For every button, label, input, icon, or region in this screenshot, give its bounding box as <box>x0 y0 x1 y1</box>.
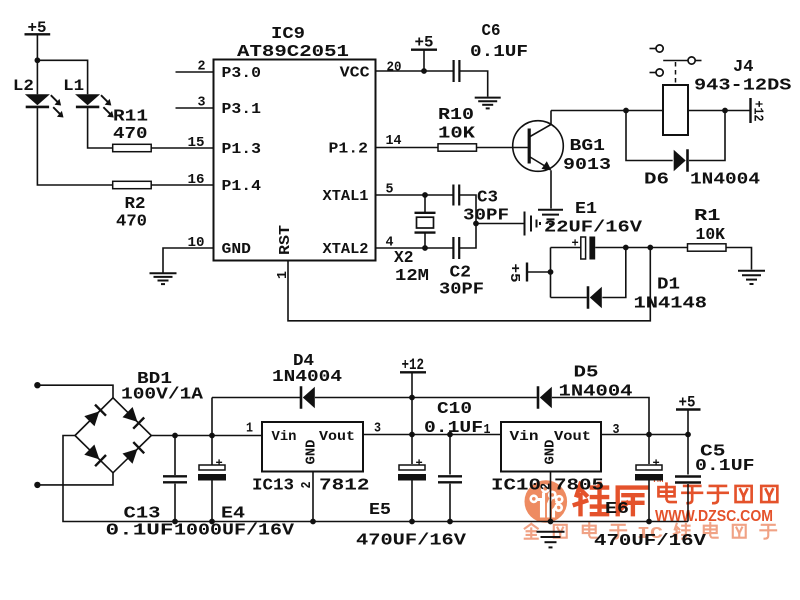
transistor BG1 <box>513 121 564 172</box>
wire rail to D4 <box>212 397 300 399</box>
wire AC top input <box>37 385 113 398</box>
svg-text:P3.0: P3.0 <box>222 66 262 82</box>
ground BG1 emitter <box>538 209 563 211</box>
op IC9 AT89C2051 box <box>214 60 376 261</box>
wire collector to relay coil <box>551 110 663 112</box>
svg-text:100V/1A: 100V/1A <box>121 386 204 405</box>
svg-text:1N4148: 1N4148 <box>634 295 708 314</box>
capacitor C10 <box>438 475 462 477</box>
watermark logo circle <box>525 480 568 523</box>
svg-text:470UF/16V: 470UF/16V <box>356 532 467 551</box>
LED L2 <box>25 94 50 105</box>
node rail C10 <box>447 519 453 525</box>
wire E1 left branch <box>550 248 552 298</box>
svg-text:1: 1 <box>276 271 291 279</box>
node rail C13 <box>172 519 178 525</box>
wire +5 to LED junction <box>36 34 38 60</box>
node RST junction <box>647 245 653 251</box>
node rail IC10 GND <box>548 519 554 525</box>
wire AC bottom input <box>37 473 113 485</box>
wire relay to D6 anode <box>626 111 673 161</box>
svg-text:C3: C3 <box>477 189 498 208</box>
svg-text:IC9: IC9 <box>271 25 305 44</box>
wire +5 stub to VCC <box>423 50 425 71</box>
node C5 junction <box>685 432 691 438</box>
svg-text:IC13: IC13 <box>252 477 294 496</box>
diode D1 <box>587 286 590 309</box>
node E6 junction <box>646 432 652 438</box>
svg-text:GND: GND <box>222 242 252 258</box>
wire R11 to pin 15 <box>151 147 213 149</box>
node E1 +5 junction <box>548 269 554 275</box>
wire RST pin 1 to D1 node <box>288 248 650 321</box>
wire D6 cathode to +12 node <box>689 111 725 161</box>
svg-text:R10: R10 <box>438 106 474 125</box>
svg-text:XTAL2: XTAL2 <box>323 242 369 258</box>
svg-text:AT89C2051: AT89C2051 <box>237 43 349 62</box>
svg-text:10K: 10K <box>696 226 726 245</box>
wire pin 10 GND <box>163 248 214 273</box>
relay J4 switch contacts <box>650 48 657 50</box>
svg-text:3: 3 <box>198 96 206 111</box>
wire C10 to rail <box>449 484 451 522</box>
svg-text:P1.2: P1.2 <box>329 141 369 157</box>
node crystal caps common <box>473 221 479 227</box>
wire IC10 Vout to +5 <box>601 434 688 436</box>
wire E4 to rail <box>211 481 213 522</box>
svg-text:14: 14 <box>386 134 402 149</box>
svg-text:4: 4 <box>386 236 394 251</box>
crystal X2 <box>415 212 436 214</box>
svg-text:1: 1 <box>484 423 491 438</box>
power +12 at rail <box>400 371 426 373</box>
wire +5 to E1 node <box>527 271 551 273</box>
svg-text:P3.1: P3.1 <box>222 102 262 118</box>
svg-text:2: 2 <box>540 483 555 490</box>
svg-text:470: 470 <box>113 125 148 144</box>
svg-text:15: 15 <box>188 136 205 151</box>
power +5 at output <box>676 408 701 410</box>
svg-text:C10: C10 <box>437 400 472 419</box>
svg-text:RST: RST <box>278 225 294 255</box>
svg-text:7812: 7812 <box>319 477 370 496</box>
wire +5 stub at C5 <box>687 410 689 435</box>
svg-text:L2: L2 <box>13 77 34 95</box>
wire bridge plus output <box>151 435 262 437</box>
wire +12 stub <box>411 372 413 397</box>
wire R2 to pin 16 <box>151 184 213 186</box>
wire IC13 GND to rail <box>312 472 314 522</box>
svg-text:D6: D6 <box>644 171 669 190</box>
svg-text:0.1UF: 0.1UF <box>470 43 528 62</box>
power +12 rotated at relay <box>749 98 751 123</box>
svg-text:+12: +12 <box>402 356 425 374</box>
node C10 junction <box>447 432 453 438</box>
diode D5 <box>537 386 540 409</box>
diode D6 <box>674 150 686 172</box>
node relay left junction <box>623 108 629 114</box>
LED L1 <box>75 94 100 105</box>
wire ground rail <box>175 521 688 523</box>
resistor R11 <box>113 144 152 151</box>
wire XTAL1 to crystal <box>424 195 426 213</box>
svg-text:E1: E1 <box>575 200 597 219</box>
diode D4 <box>300 386 303 409</box>
capacitor C6 <box>453 60 455 82</box>
wire C5 to rail <box>687 484 689 522</box>
svg-text:Vin: Vin <box>272 430 297 445</box>
regulator IC10 7805 box <box>501 422 601 472</box>
svg-text:30PF: 30PF <box>463 207 509 226</box>
wire R1 to ground <box>726 248 752 270</box>
node rail IC13 GND <box>310 519 316 525</box>
svg-text:R1: R1 <box>694 207 721 226</box>
node rail E5 <box>409 519 415 525</box>
node E4 top junction <box>209 433 215 439</box>
ground R1 <box>738 270 765 272</box>
svg-text:GND: GND <box>544 440 559 465</box>
svg-text:XTAL1: XTAL1 <box>323 189 369 205</box>
wire bridge diamond <box>75 398 151 473</box>
ground C6 <box>475 97 501 99</box>
svg-text:Vin: Vin <box>510 430 539 445</box>
node +12 junction <box>409 395 415 401</box>
svg-text:30PF: 30PF <box>439 281 484 300</box>
node rail E6 <box>646 519 652 525</box>
watermark text 电子市场网 <box>658 484 675 502</box>
resistor R2 <box>113 181 152 188</box>
wire D1 branch down <box>551 297 587 299</box>
wire pin 3 stub P3.1 <box>176 107 214 109</box>
relay J4 coil <box>663 85 688 135</box>
svg-text:E6: E6 <box>605 500 629 519</box>
svg-text:3: 3 <box>613 423 620 438</box>
svg-text:+5: +5 <box>506 264 521 283</box>
power +5 at VCC <box>411 49 437 51</box>
watermark text 维库 <box>575 484 607 514</box>
wire IC10 GND to rail <box>550 472 552 522</box>
node LED supply junction <box>35 57 41 63</box>
svg-text:VCC: VCC <box>340 65 370 81</box>
wire C6 to ground <box>460 71 488 97</box>
capacitor C5 <box>675 475 701 477</box>
capacitor C2 <box>452 237 454 259</box>
svg-text:470: 470 <box>116 213 147 232</box>
svg-text:BG1: BG1 <box>570 137 606 156</box>
node XTAL1 junction <box>422 192 428 198</box>
wire C13 branch <box>174 436 176 476</box>
svg-text:+5: +5 <box>679 394 696 412</box>
svg-text:10K: 10K <box>438 125 476 144</box>
svg-text:+5: +5 <box>415 34 434 52</box>
svg-text:+: + <box>572 237 579 251</box>
svg-text:GND: GND <box>305 440 320 465</box>
svg-text:C6: C6 <box>482 22 501 41</box>
node VCC junction <box>421 68 427 74</box>
svg-text:7805: 7805 <box>554 477 604 496</box>
svg-text:20: 20 <box>387 61 402 76</box>
terminal AC bottom <box>34 482 40 488</box>
resistor R10 <box>438 144 477 151</box>
resistor R1 <box>688 244 727 251</box>
svg-text:D1: D1 <box>657 276 680 295</box>
wire pin 2 stub P3.0 <box>176 71 214 73</box>
wire R10 to BG1 base <box>477 147 528 149</box>
capacitor C3 <box>452 185 454 206</box>
svg-text:1N4004: 1N4004 <box>272 368 342 387</box>
wire pin 14 P1.2 to R10 <box>376 147 439 149</box>
svg-text:1N4004: 1N4004 <box>559 383 633 402</box>
svg-text:E5: E5 <box>369 501 391 520</box>
svg-text:9013: 9013 <box>563 156 611 175</box>
wire E5 branch <box>411 435 413 465</box>
node +12 output junction <box>409 432 415 438</box>
svg-text:0.1UF: 0.1UF <box>424 419 483 438</box>
svg-text:J4: J4 <box>733 58 754 77</box>
svg-text:943-12DS: 943-12DS <box>694 77 792 96</box>
regulator IC13 7812 box <box>262 422 363 472</box>
svg-text:IC10: IC10 <box>491 477 541 496</box>
power +5 rotated at E1 <box>526 263 528 282</box>
node relay right junction <box>722 108 728 114</box>
ground IC9 pin10 <box>150 272 177 274</box>
wire crystal to XTAL2 <box>424 233 426 248</box>
svg-text:470UF/16V: 470UF/16V <box>594 532 707 551</box>
wire BG1 collector up <box>550 111 552 125</box>
svg-text:Vout: Vout <box>554 430 591 445</box>
svg-text:2: 2 <box>198 60 206 75</box>
bridge diode BD1 top-right <box>123 407 138 422</box>
svg-text:R11: R11 <box>113 108 148 127</box>
terminal AC top <box>34 382 40 388</box>
wire C13 to rail <box>174 484 176 522</box>
svg-text:X2: X2 <box>394 249 414 268</box>
svg-text:1000UF/16V: 1000UF/16V <box>174 522 295 541</box>
wire D5 to +5 net <box>552 398 649 435</box>
wire L1 cathode to R11 <box>88 107 113 148</box>
wire E4 node riser <box>211 398 213 436</box>
watermark text 全球最大IC采购网站 <box>525 524 538 539</box>
bridge diode BD1 bottom-right <box>123 449 138 464</box>
wire IC13 Vout <box>363 434 501 436</box>
wire E6 branch <box>648 435 650 465</box>
relay J4 switch pole and arm <box>663 60 688 62</box>
wire bridge minus to rail <box>63 436 175 522</box>
capacitor C13 <box>163 475 187 477</box>
relay J4 actuator dashed link <box>675 62 677 85</box>
wire BG1 emitter down <box>550 171 552 209</box>
wire pin 5 XTAL1 <box>376 194 453 196</box>
svg-text:1: 1 <box>246 422 253 437</box>
wire C3 to common <box>459 195 476 248</box>
wire D1 anode up <box>602 248 626 298</box>
wire pin 20 VCC <box>376 70 454 72</box>
wire junction to L1 <box>37 60 87 94</box>
ground main rail <box>537 531 565 533</box>
svg-text:Vout: Vout <box>319 430 355 445</box>
svg-text:L1: L1 <box>63 77 84 95</box>
wire E1 to D1 junction <box>595 247 687 249</box>
svg-text:WWW.DZSC.COM: WWW.DZSC.COM <box>655 508 773 525</box>
wire pin 4 XTAL2 <box>376 247 453 249</box>
wire common to ground <box>476 223 524 225</box>
node D1 cathode junction <box>623 245 629 251</box>
wire to E1 plus plate <box>551 247 581 249</box>
wire E4 branch <box>211 436 213 466</box>
wire C10 branch <box>449 435 451 475</box>
wire +12 riser to Vout net <box>411 398 413 435</box>
wire relay coil to +12 <box>688 110 751 112</box>
bridge diode BD1 top-left <box>84 411 99 426</box>
svg-text:5: 5 <box>386 183 394 198</box>
wire L2 cathode to R2 <box>37 107 112 185</box>
node rail E4 <box>209 519 215 525</box>
wire C5 branch <box>687 435 689 475</box>
wire D4 to D5 <box>315 397 537 399</box>
svg-text:1N4004: 1N4004 <box>690 171 760 190</box>
power +5 top-left <box>25 33 51 35</box>
svg-text:R2: R2 <box>125 195 146 214</box>
wire E6 to rail <box>648 481 650 522</box>
node C13 top junction <box>172 433 178 439</box>
wire junction to L2 <box>36 60 38 94</box>
svg-text:P1.4: P1.4 <box>222 179 262 195</box>
ground crystal caps <box>524 212 526 236</box>
svg-text:0.1UF: 0.1UF <box>695 457 755 476</box>
node XTAL2 junction <box>422 245 428 251</box>
svg-text:D5: D5 <box>574 364 599 383</box>
svg-text:16: 16 <box>188 173 205 188</box>
wire E5 to rail <box>411 481 413 522</box>
svg-text:P1.3: P1.3 <box>222 142 262 158</box>
svg-text:12M: 12M <box>395 267 429 286</box>
svg-text:0.1UF: 0.1UF <box>106 522 174 541</box>
svg-text:+12: +12 <box>750 101 765 122</box>
bridge diode BD1 bottom-left <box>84 445 99 460</box>
svg-text:22UF/16V: 22UF/16V <box>544 219 643 238</box>
